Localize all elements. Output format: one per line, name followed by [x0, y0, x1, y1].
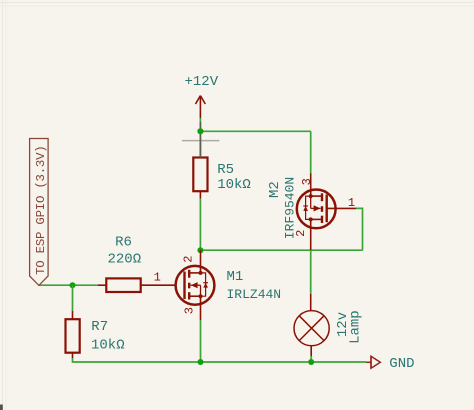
- gate bar: [326, 195, 328, 223]
- svg-text:GND: GND: [389, 356, 414, 372]
- svg-text:2: 2: [181, 256, 195, 263]
- wire GPIO label to R6: [38, 284, 98, 286]
- channel bars: [188, 270, 190, 278]
- resistor R6: [98, 278, 176, 292]
- svg-text:R6: R6: [115, 235, 132, 251]
- body diode: [306, 196, 311, 219]
- power symbol +12V: [196, 96, 206, 118]
- svg-text:10kΩ: 10kΩ: [91, 337, 125, 353]
- transistor M2 IRF9540N: [297, 174, 356, 251]
- svg-text:3: 3: [300, 178, 314, 185]
- drain pin: [200, 250, 202, 273]
- transistor M1 IRLZ44N: [176, 250, 215, 320]
- lamp: [294, 294, 329, 356]
- svg-text:Lamp: Lamp: [347, 310, 363, 344]
- sheet border top: [0, 2, 474, 4]
- wire power rail horizontal to M2: [200, 130, 310, 132]
- junction lamp / rail: [308, 359, 314, 365]
- wire M2 drain to lamp: [310, 250, 312, 294]
- svg-text:M2: M2: [267, 181, 283, 198]
- red stub to GND label: [367, 361, 372, 363]
- svg-text:IRF9540N: IRF9540N: [283, 177, 298, 239]
- body diode: [201, 273, 206, 296]
- svg-text:M1: M1: [227, 269, 244, 285]
- wire R5 to gate node: [199, 199, 201, 251]
- wire lamp to ground rail: [310, 356, 312, 362]
- wire +12V to R5: [199, 118, 201, 143]
- svg-text:1: 1: [348, 196, 355, 210]
- junction M1 source / rail: [198, 359, 204, 365]
- junction power rail: [197, 128, 203, 134]
- wire GPIO node down to R7: [72, 285, 74, 311]
- pin 1 gate: [327, 207, 356, 209]
- svg-text:3: 3: [182, 307, 196, 314]
- resistor R5: [193, 143, 207, 199]
- crosshair marker horizontal arm: [182, 140, 219, 142]
- junction gate node: [197, 247, 203, 253]
- gate bar: [183, 272, 185, 300]
- junction GPIO node: [70, 282, 76, 288]
- svg-text:+12V: +12V: [184, 74, 218, 90]
- wire down to M2 drain pin: [310, 131, 312, 173]
- wire vertical up to M2 gate pin: [356, 208, 363, 250]
- source pin: [200, 296, 202, 320]
- svg-text:R5: R5: [217, 162, 234, 178]
- svg-text:1: 1: [154, 271, 161, 285]
- junction power rail (redraw over crosshair): [197, 128, 203, 134]
- wire M1 source to ground rail: [200, 320, 202, 362]
- sheet border left: [2, 0, 4, 410]
- pin 3 (top): [310, 174, 312, 197]
- ground rail wire: [73, 358, 367, 362]
- hierarchical label GND arrow: [371, 356, 380, 368]
- svg-text:220Ω: 220Ω: [107, 252, 141, 268]
- body arrow: [191, 284, 201, 286]
- drain bar (bottom): [311, 218, 322, 220]
- source bar (top): [311, 195, 322, 197]
- svg-text:10kΩ: 10kΩ: [217, 177, 251, 193]
- corner mark bottom-left: [0, 405, 3, 410]
- svg-text:IRLZ44N: IRLZ44N: [227, 287, 282, 302]
- channel bars: [321, 193, 323, 201]
- pin 2 (bottom): [310, 219, 312, 250]
- global label TO ESP GPIO (3.3V): [30, 139, 48, 286]
- drain bar: [189, 272, 200, 274]
- wire gate node to M2 gate (horizontal): [200, 249, 362, 251]
- crosshair marker vertical arm: [199, 122, 201, 158]
- source bar: [189, 295, 200, 297]
- svg-text:TO ESP GPIO (3.3V): TO ESP GPIO (3.3V): [34, 146, 48, 275]
- resistor R7: [66, 311, 80, 358]
- svg-text:R7: R7: [91, 319, 108, 335]
- body arrow: [311, 207, 321, 209]
